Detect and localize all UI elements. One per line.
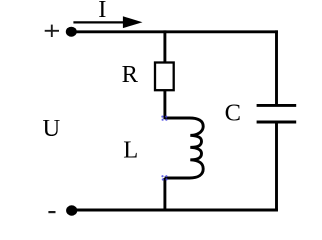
- svg-text:R: R: [122, 61, 139, 88]
- wire middle branch top (to resistor): [163, 30, 166, 63]
- inductor L coil: [165, 118, 204, 178]
- svg-text:U: U: [43, 115, 61, 142]
- capacitor C plates: [257, 105, 297, 122]
- svg-text:L: L: [123, 136, 138, 163]
- anchor artifact dots bottom stub: [161, 175, 167, 181]
- plus terminal label: [45, 25, 59, 37]
- svg-text:I: I: [98, 0, 106, 23]
- node dot top-left: [66, 27, 77, 37]
- wire right vertical lower: [275, 122, 278, 211]
- wire bottom horizontal: [71, 209, 278, 212]
- svg-text:C: C: [225, 100, 241, 127]
- wire inductor to bottom: [163, 178, 166, 211]
- wire right vertical upper: [275, 30, 278, 105]
- wire top horizontal: [71, 30, 278, 33]
- current arrow: [73, 16, 142, 28]
- resistor R body: [155, 63, 174, 91]
- minus terminal label: [48, 211, 55, 213]
- anchor artifact dots top stub: [161, 116, 167, 121]
- wire resistor to inductor: [163, 90, 166, 119]
- node dot bottom-left: [66, 205, 77, 215]
